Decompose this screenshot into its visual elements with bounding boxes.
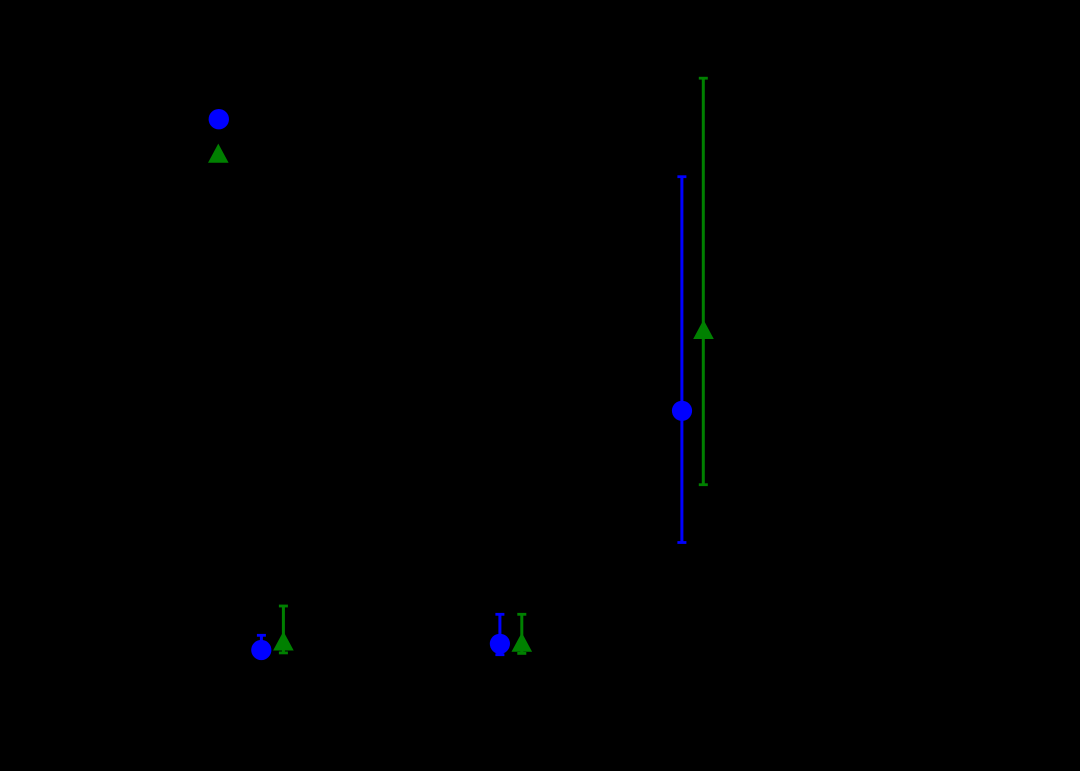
errorbar group1 green: bottom cap bbox=[279, 652, 288, 655]
errorbar group3 blue: vertical line bbox=[680, 177, 683, 543]
data marker group2 green triangle bbox=[512, 633, 533, 652]
errorbar group2 green: bottom cap bbox=[517, 652, 526, 655]
errorbar group3 blue: top cap bbox=[677, 175, 686, 178]
data marker group1 blue circle bbox=[251, 640, 271, 660]
data marker group3 blue circle bbox=[672, 401, 692, 421]
errorbar group2 blue: top cap bbox=[495, 613, 504, 616]
legend marker: green triangle (series 2) bbox=[208, 144, 229, 163]
errorbar group2 green: top cap bbox=[517, 613, 526, 616]
errorbar group3 blue: bottom cap bbox=[677, 541, 686, 544]
errorbar group3 green: vertical line bbox=[702, 78, 705, 485]
errorbar group1 blue: vertical line bbox=[260, 635, 263, 657]
errorbar group3 green: bottom cap bbox=[699, 483, 708, 486]
errorbar group2 blue: bottom cap bbox=[495, 653, 504, 656]
data marker group1 green triangle bbox=[273, 631, 294, 650]
errorbar group1 green: top cap bbox=[279, 605, 288, 608]
errorbar group2 blue: vertical line bbox=[498, 614, 501, 654]
errorbar group3 green: top cap bbox=[699, 77, 708, 80]
errorbar group2 green: vertical line bbox=[520, 614, 523, 653]
legend marker: blue circle (series 1) bbox=[209, 109, 229, 129]
data marker group2 blue circle bbox=[490, 634, 510, 654]
data marker group3 green triangle bbox=[693, 320, 714, 339]
errorbar group1 blue: bottom cap (hidden behind marker) bbox=[257, 656, 266, 659]
errorbar group1 green: vertical line bbox=[282, 606, 285, 653]
errorbar group1 blue: top cap bbox=[257, 634, 266, 637]
